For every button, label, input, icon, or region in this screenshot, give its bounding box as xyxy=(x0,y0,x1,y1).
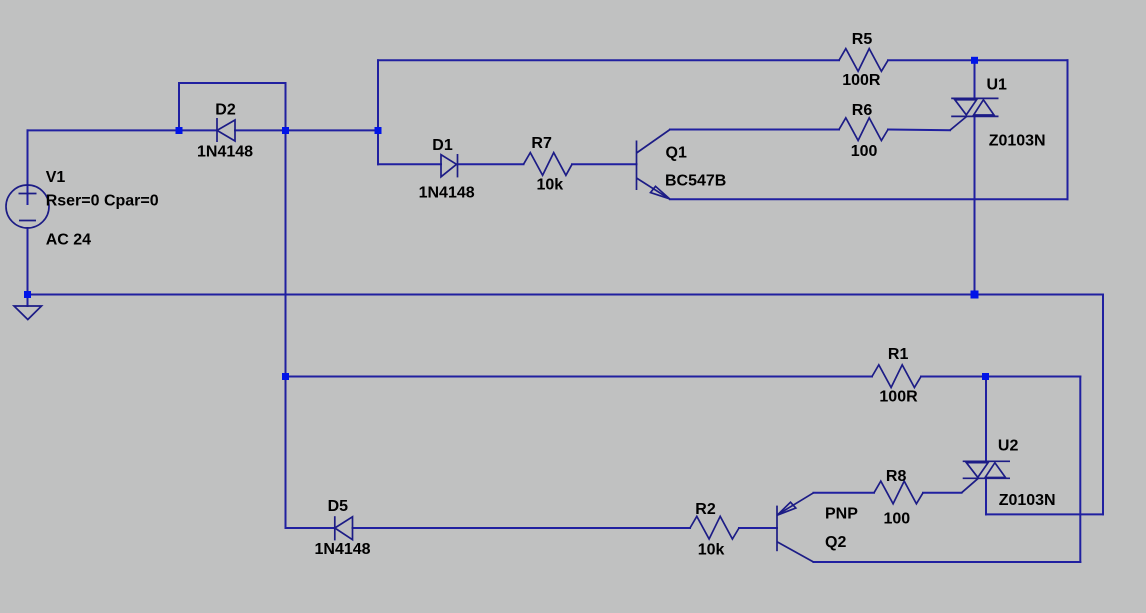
svg-text:D5: D5 xyxy=(328,498,349,515)
svg-text:1N4148: 1N4148 xyxy=(197,144,253,161)
svg-text:U2: U2 xyxy=(998,437,1019,454)
svg-text:Z0103N: Z0103N xyxy=(999,492,1056,509)
svg-text:AC 24: AC 24 xyxy=(46,232,91,249)
node junction J4 xyxy=(971,57,978,64)
wire right vertical top loop xyxy=(1067,60,1069,199)
wire ground stub xyxy=(27,295,29,307)
node junction ground left xyxy=(24,291,31,298)
node junction J8 xyxy=(982,373,989,380)
wire long vertical x285 xyxy=(285,130,287,528)
svg-text:R8: R8 xyxy=(886,468,907,485)
diode D5 xyxy=(335,516,353,540)
transistor Q2 xyxy=(777,493,814,562)
wire R1 row left xyxy=(286,376,873,378)
wire top row to R5 xyxy=(378,59,839,61)
node junction J1 xyxy=(176,127,183,134)
svg-text:PNP: PNP xyxy=(825,505,858,522)
resistor R1 xyxy=(872,365,921,388)
diode D1 xyxy=(441,154,458,177)
wire U1 top lead xyxy=(974,60,976,98)
wire D5 to R2 xyxy=(353,527,691,529)
resistor R5 xyxy=(839,49,888,72)
wire R1 to J8 xyxy=(921,376,1080,378)
node junction J2 xyxy=(282,127,289,134)
svg-text:BC547B: BC547B xyxy=(665,172,726,189)
node junction ground right xyxy=(971,291,979,299)
svg-text:10k: 10k xyxy=(537,177,564,194)
svg-text:D2: D2 xyxy=(215,102,236,119)
svg-text:Q2: Q2 xyxy=(825,534,846,551)
wire vertical at x378 xyxy=(377,60,379,164)
wire D2 right xyxy=(235,129,286,131)
ground xyxy=(14,306,42,320)
wire Q1 collector to R6 xyxy=(670,129,839,131)
wire D2 bypass loop xyxy=(179,83,286,130)
svg-text:R6: R6 xyxy=(852,102,873,119)
svg-text:D1: D1 xyxy=(432,137,453,154)
resistor R7 xyxy=(524,153,573,176)
svg-text:Z0103N: Z0103N xyxy=(989,132,1046,149)
wire corner to D5 xyxy=(286,527,335,529)
voltage source V1 xyxy=(6,185,49,228)
wire D2 left xyxy=(179,129,217,131)
wire U2 bottom lead2 xyxy=(985,478,987,514)
svg-text:R1: R1 xyxy=(888,346,909,363)
wire R2 to Q2 base xyxy=(739,527,777,529)
svg-text:V1: V1 xyxy=(46,169,66,186)
svg-text:100R: 100R xyxy=(842,72,881,89)
triac U1 xyxy=(950,98,999,130)
wire right vertical bottom loop xyxy=(1079,377,1081,563)
wire V1 top lead xyxy=(27,130,29,204)
wire Q1 emitter row xyxy=(670,198,1068,200)
node junction J7 xyxy=(282,373,289,380)
node junction J3 xyxy=(375,127,382,134)
wire D1 row left xyxy=(378,163,441,165)
wire V1 bottom lead xyxy=(27,228,29,295)
svg-text:100: 100 xyxy=(851,143,878,160)
wire far right vertical xyxy=(1102,295,1104,515)
svg-text:1N4148: 1N4148 xyxy=(315,541,371,558)
wire R5 to node J4 xyxy=(888,59,1068,61)
wire node J2 to J3 xyxy=(286,129,379,131)
svg-text:10k: 10k xyxy=(698,542,725,559)
wire R6 to U1 gate xyxy=(888,129,950,132)
svg-text:1N4148: 1N4148 xyxy=(419,184,475,201)
resistor R2 xyxy=(690,516,739,539)
svg-text:R2: R2 xyxy=(695,501,716,518)
triac U2 xyxy=(962,461,1011,493)
wire R7 to Q1 base xyxy=(572,163,637,165)
wire D1 to R7 xyxy=(458,163,524,165)
resistor R6 xyxy=(839,118,888,141)
wire ground rail xyxy=(28,294,1104,296)
svg-text:U1: U1 xyxy=(987,77,1008,94)
wire U2 bottom horizontal xyxy=(986,513,1103,515)
wire U2 gate to R8 xyxy=(923,492,962,494)
svg-text:100R: 100R xyxy=(879,388,918,405)
svg-text:R7: R7 xyxy=(531,135,552,152)
svg-text:R5: R5 xyxy=(852,31,873,48)
wire Q2 collector row xyxy=(814,561,1081,563)
transistor Q1 xyxy=(637,130,671,200)
wire U2 top lead xyxy=(985,377,987,462)
wire V1 top horizontal xyxy=(28,129,180,131)
wire U1 bottom lead xyxy=(974,116,976,294)
wire R8 to Q2 emitter xyxy=(814,492,875,494)
svg-text:Q1: Q1 xyxy=(666,145,687,162)
svg-text:Rser=0 Cpar=0: Rser=0 Cpar=0 xyxy=(46,193,159,210)
diode D2 xyxy=(217,118,235,142)
svg-text:100: 100 xyxy=(884,511,911,528)
resistor R8 xyxy=(874,481,923,504)
